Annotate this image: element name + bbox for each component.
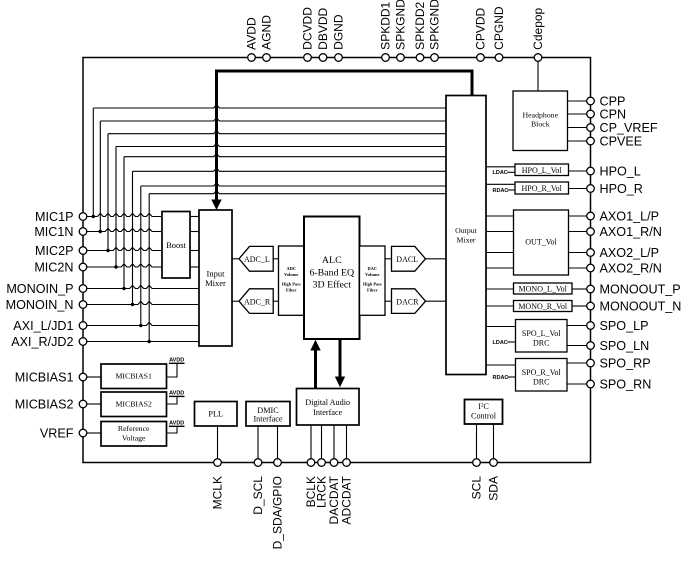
- block SPO_L_Vol DRC: [516, 320, 568, 353]
- wire output mixer to SPO_L_Vol DRC: [486, 326, 516, 328]
- block ALC 6-Band EQ 3D Effect: [304, 217, 360, 340]
- svg-text:AGND: AGND: [260, 15, 274, 50]
- svg-text:SPKGND: SPKGND: [394, 0, 408, 50]
- svg-text:AXI_R/JD2: AXI_R/JD2: [11, 335, 73, 349]
- wire DACR to output mixer: [426, 300, 447, 302]
- pin DBVDD (top): [316, 7, 330, 61]
- pin SPKDD1 (top): [379, 1, 393, 61]
- wire MONOIN_N to mixer input: [87, 301, 199, 306]
- svg-text:Filter: Filter: [367, 288, 378, 293]
- pin MIC1N (left): [34, 225, 86, 239]
- pin MCLK (bottom): [211, 459, 225, 510]
- wire MICBIAS1 pin to block: [87, 376, 101, 378]
- wires OUT_Vol to AXO pins (4): [569, 216, 587, 268]
- wire feedback bus line 2 (output mixer to MIC1N net): [100, 118, 446, 232]
- svg-text:AXO1_R/N: AXO1_R/N: [600, 225, 662, 239]
- svg-text:Digital Audio: Digital Audio: [305, 398, 350, 407]
- svg-text:AXO1_L/P: AXO1_L/P: [600, 210, 660, 224]
- wire DACL to output mixer: [426, 258, 447, 260]
- svg-text:ADC: ADC: [286, 266, 296, 271]
- power symbol AVDD for Reference Voltage: [167, 420, 185, 433]
- svg-text:MONO_R_Vol: MONO_R_Vol: [518, 302, 568, 311]
- wire DMIC to D_SDA/GPIO pin: [277, 426, 279, 459]
- block PLL: [195, 402, 238, 427]
- svg-text:Output: Output: [455, 226, 477, 235]
- svg-text:I2C: I2C: [478, 402, 489, 411]
- svg-text:MICBIAS2: MICBIAS2: [115, 399, 151, 408]
- pin DGND (top): [332, 14, 346, 61]
- pin LRCK (bottom): [315, 459, 329, 508]
- wire SPO_L_Vol to SPO_LN pin: [567, 345, 587, 347]
- pin AGND (top): [260, 15, 274, 62]
- svg-text:Mixer: Mixer: [456, 236, 475, 245]
- svg-text:CPGND: CPGND: [492, 6, 506, 50]
- block I2C Control: [465, 400, 503, 425]
- wire Input Mixer to ADC_R: [232, 300, 239, 302]
- wire HPO_L_Vol to HPO_L pin: [569, 170, 587, 172]
- svg-text:MONOIN_N: MONOIN_N: [6, 298, 74, 312]
- svg-text:SPKDD2: SPKDD2: [413, 1, 427, 49]
- svg-text:High Pass: High Pass: [363, 281, 382, 286]
- pin SPKGND (top): [428, 0, 442, 61]
- wires headphone block to CPP/CPN/CP_VREF/CPVEE: [568, 101, 587, 141]
- svg-text:Filter: Filter: [286, 288, 297, 293]
- block MONO_L_Vol: [514, 283, 573, 294]
- wire Reference Voltage pin to block: [87, 432, 101, 434]
- pin MICBIAS1 (left): [15, 371, 87, 385]
- svg-text:HPO_R_Vol: HPO_R_Vol: [522, 184, 563, 193]
- svg-text:Input: Input: [207, 268, 226, 278]
- block Output Mixer: [446, 96, 486, 375]
- svg-text:AVDD: AVDD: [169, 390, 184, 396]
- wire AXI_R/JD2 to mixer input: [87, 340, 199, 343]
- block MICBIAS2: [101, 392, 167, 417]
- pin MIC1P (left): [35, 210, 87, 224]
- svg-text:DCVDD: DCVDD: [301, 7, 315, 50]
- wire DAC filter to DACR: [385, 300, 392, 302]
- label RDAC (to HPO_R_Vol): [493, 188, 516, 194]
- wire MIC1P to mixer input: [87, 213, 162, 218]
- wire DAC filter to DACL: [385, 258, 392, 260]
- svg-text:LDAC: LDAC: [493, 170, 508, 176]
- svg-text:3D Effect: 3D Effect: [313, 280, 352, 291]
- block SPO_R_Vol DRC: [516, 359, 568, 392]
- block DAC Volume / High Pass Filter: [360, 246, 386, 315]
- pin MONOOUT_P (right): [587, 283, 681, 297]
- svg-text:AVDD: AVDD: [169, 420, 184, 426]
- svg-text:SPO_RN: SPO_RN: [600, 378, 652, 392]
- svg-text:DRC: DRC: [533, 378, 549, 387]
- pin HPO_L (right): [587, 165, 641, 179]
- wire PLL to MCLK pin: [217, 426, 219, 459]
- block MICBIAS1: [101, 364, 167, 389]
- pin MONOIN_N (left): [6, 298, 87, 312]
- pin SPKDD2 (top): [413, 1, 427, 61]
- svg-text:MONOOUT_P: MONOOUT_P: [600, 283, 681, 297]
- wire MIC1N to mixer input: [87, 228, 162, 233]
- svg-text:DACL: DACL: [396, 255, 418, 264]
- svg-text:AVDD: AVDD: [169, 357, 184, 363]
- wire ADC_R to ADC volume filter: [273, 300, 278, 302]
- svg-text:D_SCL: D_SCL: [251, 476, 265, 515]
- pin AXO1_R/N (right): [587, 225, 662, 239]
- svg-text:ALC: ALC: [322, 255, 342, 266]
- svg-text:PLL: PLL: [208, 410, 223, 419]
- pin VREF (left): [40, 427, 87, 441]
- wire DAI to bottom pin at x=346.5: [346, 425, 348, 459]
- pin MONOIN_P (left): [6, 282, 86, 296]
- wire feedback bus line 5 (output mixer to MONOIN_P net): [124, 154, 446, 289]
- wire HPO_R_Vol to HPO_R pin: [569, 188, 587, 190]
- wire SPO_L_Vol to SPO_LP pin: [567, 325, 587, 327]
- pin SPO_RN (right): [587, 378, 652, 392]
- wire MIC2P to mixer input: [87, 247, 162, 252]
- wire output mixer to HPO_L_Vol: [486, 166, 515, 168]
- svg-text:MIC1P: MIC1P: [35, 210, 74, 224]
- svg-text:Cdepop: Cdepop: [531, 7, 545, 49]
- wire I2C to SCL pin: [476, 424, 478, 459]
- pin MONOOUT_N (right): [587, 300, 682, 314]
- wire feedback bus line 4 (output mixer to MIC2N net): [116, 143, 446, 267]
- wire DMIC to D_SCL pin: [257, 426, 259, 459]
- svg-text:Voltage: Voltage: [122, 434, 146, 443]
- wire output mixer to HPO_R_Vol: [486, 183, 515, 185]
- svg-text:High Pass: High Pass: [282, 281, 301, 286]
- pin SPO_LN (right): [587, 339, 650, 353]
- svg-text:SPKGND: SPKGND: [428, 0, 442, 50]
- svg-text:Mixer: Mixer: [205, 278, 226, 288]
- svg-text:DRC: DRC: [533, 339, 549, 348]
- svg-text:Block: Block: [531, 120, 550, 129]
- svg-text:SPO_L_Vol: SPO_L_Vol: [522, 329, 561, 338]
- wire feedback bus line 8 (output mixer to AXI_R/JD2 net): [149, 191, 446, 342]
- svg-text:MICBIAS2: MICBIAS2: [15, 398, 74, 412]
- ADC left channel ADC_L: [239, 246, 273, 271]
- block DMIC Interface: [246, 402, 290, 427]
- label LDAC (to HPO_L_Vol): [493, 170, 516, 176]
- svg-text:Boost: Boost: [166, 240, 186, 250]
- pin AXI_R/JD2 (left): [11, 335, 87, 349]
- wire SPO_R_Vol to SPO_RP pin: [567, 362, 587, 364]
- pin SPKGND (top): [394, 0, 408, 61]
- svg-text:ADCDAT: ADCDAT: [340, 475, 354, 524]
- wire MONO_R_Vol to MONOOUT_N pin: [572, 305, 587, 307]
- wire feedback bus line 6 (output mixer to MONOIN_N net): [133, 168, 447, 304]
- pin CPP (right): [587, 95, 626, 109]
- pin SPO_RP (right): [587, 357, 651, 371]
- svg-text:MIC1N: MIC1N: [34, 225, 73, 239]
- svg-text:Reference: Reference: [118, 424, 150, 433]
- svg-text:DAC: DAC: [368, 266, 378, 271]
- wire DAI to bottom pin at x=334: [333, 425, 335, 459]
- pin AXO1_L/P (right): [587, 210, 659, 224]
- pin D_SCL (bottom): [251, 459, 265, 515]
- svg-text:SDA: SDA: [487, 476, 501, 501]
- svg-text:MONOIN_P: MONOIN_P: [6, 282, 73, 296]
- pin AVDD (top): [245, 17, 259, 61]
- svg-text:Control: Control: [471, 412, 497, 421]
- svg-text:Volume: Volume: [365, 272, 379, 277]
- svg-text:ADC_L: ADC_L: [244, 255, 270, 264]
- svg-text:CPP: CPP: [600, 95, 626, 109]
- pin ADCDAT (bottom): [340, 459, 354, 525]
- pin HPO_R (right): [587, 182, 643, 196]
- pin SCL (bottom): [470, 459, 484, 500]
- pin AXO2_R/N (right): [587, 262, 662, 276]
- svg-text:AXI_L/JD1: AXI_L/JD1: [13, 319, 73, 333]
- pin CPN (right): [587, 108, 626, 122]
- svg-text:MCLK: MCLK: [211, 476, 225, 509]
- label LDAC (to SPO_L_Vol): [493, 340, 516, 346]
- power symbol AVDD for MICBIAS1: [167, 357, 185, 377]
- wires output mixer to OUT_Vol (4): [486, 216, 514, 268]
- wire DAI to bottom pin at x=311: [310, 425, 312, 459]
- block Headphone Block: [513, 91, 568, 151]
- ADC right channel ADC_R: [239, 289, 273, 314]
- wire MICBIAS2 pin to block: [87, 403, 101, 405]
- wire AXI_L/JD1 to mixer input: [87, 322, 199, 327]
- svg-text:SPKDD1: SPKDD1: [379, 1, 393, 49]
- pin SPO_LP (right): [587, 319, 649, 333]
- svg-text:CP_VREF: CP_VREF: [600, 121, 658, 135]
- pin MICBIAS2 (left): [15, 398, 87, 412]
- block OUT_Vol: [514, 210, 569, 275]
- svg-text:OUT_Vol: OUT_Vol: [525, 238, 557, 247]
- svg-text:Interface: Interface: [313, 408, 342, 417]
- pin AXI_L/JD1 (left): [13, 319, 87, 333]
- svg-text:MONOOUT_N: MONOOUT_N: [600, 300, 682, 314]
- wire Boost to Input Mixer (4 lines): [190, 217, 199, 268]
- svg-text:SCL: SCL: [470, 476, 484, 500]
- svg-text:Headphone: Headphone: [523, 110, 559, 119]
- wire output mixer to SPO_R_Vol DRC: [486, 364, 516, 366]
- pin BCLK (bottom): [304, 459, 318, 508]
- pin AXO2_L/P (right): [587, 246, 659, 260]
- wire thick bus: output mixer top to input mixer top (with arrow): [211, 71, 472, 210]
- DAC left channel DACL: [392, 246, 426, 271]
- block Input Mixer: [199, 210, 232, 346]
- chip outline border: [83, 58, 591, 463]
- wire output mixer to MONO_L_Vol: [486, 288, 514, 290]
- wire SPO_R_Vol to SPO_RN pin: [567, 383, 587, 385]
- wire DAI to bottom pin at x=321.5: [321, 425, 323, 459]
- pin SDA (bottom): [487, 459, 501, 501]
- block Boost amplifier: [162, 212, 190, 279]
- svg-text:MICBIAS1: MICBIAS1: [15, 371, 74, 385]
- svg-text:VREF: VREF: [40, 427, 74, 441]
- block HPO_L_Vol: [515, 164, 569, 176]
- pin MIC2P (left): [35, 244, 87, 258]
- svg-text:HPO_R: HPO_R: [600, 182, 643, 196]
- pin Cdepop (top): [531, 7, 545, 61]
- block HPO_R_Vol: [515, 182, 569, 194]
- svg-text:Interface: Interface: [253, 414, 282, 423]
- svg-text:HPO_L_Vol: HPO_L_Vol: [522, 166, 563, 175]
- svg-text:DACR: DACR: [396, 298, 419, 307]
- svg-text:Volume: Volume: [284, 272, 298, 277]
- svg-text:MONO_L_Vol: MONO_L_Vol: [519, 285, 568, 294]
- svg-text:CPN: CPN: [600, 108, 627, 122]
- svg-text:DGND: DGND: [332, 14, 346, 50]
- wire feedback bus line 7 (output mixer to AXI_L/JD1 net): [141, 183, 446, 326]
- wire feedback bus line 3 (output mixer to MIC2P net): [108, 131, 446, 251]
- svg-text:AXO2_L/P: AXO2_L/P: [600, 246, 660, 260]
- pin MIC2N (left): [34, 261, 86, 275]
- svg-text:RDAC: RDAC: [493, 375, 509, 381]
- svg-text:6-Band EQ: 6-Band EQ: [309, 268, 354, 279]
- svg-text:AVDD: AVDD: [245, 17, 259, 50]
- pin DACDAT (bottom): [327, 459, 341, 525]
- pin D_SDA/GPIO (bottom): [271, 459, 285, 550]
- pin CPGND (top): [492, 6, 506, 61]
- svg-text:CPVEE: CPVEE: [600, 135, 643, 149]
- pin DCVDD (top): [301, 7, 315, 62]
- wire Cdepop to headphone block: [537, 61, 539, 91]
- svg-text:ADC_R: ADC_R: [244, 298, 271, 307]
- svg-text:SPO_LP: SPO_LP: [600, 319, 649, 333]
- svg-text:AXO2_R/N: AXO2_R/N: [600, 262, 662, 276]
- svg-text:SPO_RP: SPO_RP: [600, 357, 651, 371]
- svg-text:MICBIAS1: MICBIAS1: [115, 372, 151, 381]
- wire thick arrow DAI to ALC (up): [310, 340, 320, 389]
- power symbol AVDD for MICBIAS2: [167, 390, 185, 404]
- wire feedback bus line 1 (output mixer to MIC1P net): [93, 105, 446, 217]
- svg-text:MIC2P: MIC2P: [35, 244, 74, 258]
- wire MIC2N to mixer input: [87, 264, 162, 269]
- DAC right channel DACR: [392, 289, 426, 314]
- svg-text:CPVDD: CPVDD: [474, 7, 488, 49]
- svg-text:RDAC: RDAC: [493, 188, 509, 194]
- wire Input Mixer to ADC_L: [232, 258, 239, 260]
- wire MONO_L_Vol to MONOOUT_P pin: [572, 288, 587, 290]
- pin CP_VREF (right): [587, 121, 658, 135]
- label RDAC (to SPO_R_Vol): [493, 375, 516, 381]
- wire I2C to SDA pin: [493, 424, 495, 459]
- block Reference Voltage: [101, 422, 167, 447]
- wire thick arrow ALC to DAI (down): [335, 339, 345, 387]
- svg-text:LDAC: LDAC: [493, 340, 508, 346]
- wire output mixer to MONO_R_Vol: [486, 305, 514, 307]
- svg-text:SPO_LN: SPO_LN: [600, 339, 650, 353]
- svg-text:DBVDD: DBVDD: [316, 7, 330, 49]
- svg-text:D_SDA/GPIO: D_SDA/GPIO: [271, 476, 285, 549]
- svg-text:MIC2N: MIC2N: [34, 261, 73, 275]
- block MONO_R_Vol: [514, 301, 573, 312]
- svg-text:HPO_L: HPO_L: [600, 165, 641, 179]
- wire MONOIN_P to mixer input: [87, 285, 199, 290]
- pin CPVDD (top): [474, 7, 488, 61]
- block Digital Audio Interface: [297, 389, 360, 426]
- pin CPVEE (right): [587, 135, 643, 149]
- wire ADC_L to ADC volume filter: [273, 258, 278, 260]
- block ADC Volume / High Pass Filter: [279, 246, 305, 315]
- svg-text:SPO_R_Vol: SPO_R_Vol: [522, 368, 562, 377]
